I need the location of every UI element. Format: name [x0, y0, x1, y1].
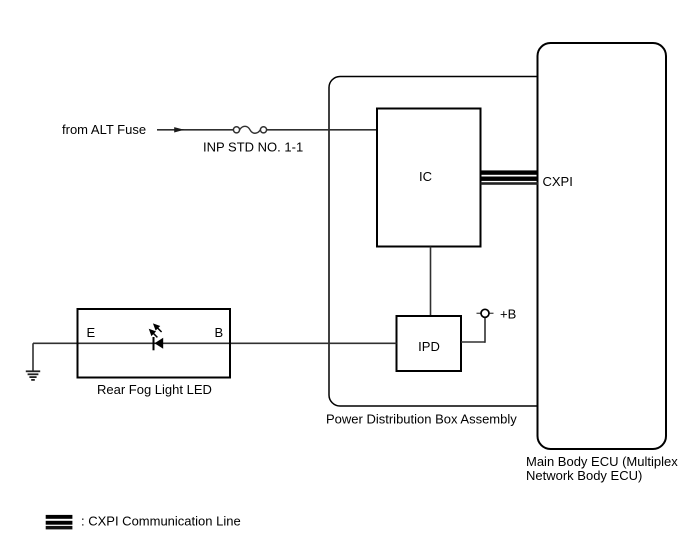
svg-text:Network Body ECU): Network Body ECU)	[526, 468, 642, 483]
svg-text:from ALT Fuse: from ALT Fuse	[62, 122, 146, 137]
svg-text:+B: +B	[500, 307, 516, 322]
svg-text:Main Body ECU (Multiplex: Main Body ECU (Multiplex	[526, 454, 678, 469]
svg-text:: CXPI Communication Line: : CXPI Communication Line	[81, 514, 241, 529]
svg-text:Power Distribution Box Assembl: Power Distribution Box Assembly	[326, 412, 517, 427]
svg-text:CXPI: CXPI	[543, 174, 573, 189]
svg-text:IC: IC	[419, 169, 432, 184]
svg-text:E: E	[87, 325, 96, 340]
svg-text:INP STD NO. 1-1: INP STD NO. 1-1	[203, 140, 303, 155]
svg-text:IPD: IPD	[418, 339, 440, 354]
svg-text:Rear Fog Light LED: Rear Fog Light LED	[97, 382, 212, 397]
svg-text:B: B	[215, 325, 224, 340]
